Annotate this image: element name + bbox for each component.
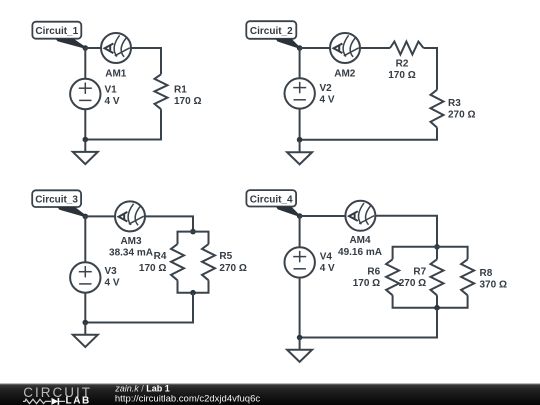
- svg-text:4 V: 4 V: [320, 95, 335, 106]
- node parallel bottom C3: [190, 290, 196, 296]
- wire node to V3 top: [84, 216, 86, 262]
- wire V4 bottom to bottom node: [299, 278, 301, 338]
- footer bar: [0, 383, 540, 405]
- svg-text:4 V: 4 V: [320, 263, 335, 274]
- svg-text:270 Ω: 270 Ω: [219, 263, 246, 274]
- wire R7 bottom lead: [436, 295, 438, 307]
- svg-text:V4: V4: [320, 252, 333, 263]
- svg-text:R7: R7: [413, 267, 426, 278]
- wire node to V4 top: [299, 216, 301, 247]
- node parallel top C4: [434, 244, 440, 250]
- resistor R7: [399, 259, 444, 295]
- svg-text:R4: R4: [154, 251, 167, 262]
- node parallel top C3: [190, 229, 196, 235]
- ammeter AM3: [109, 201, 153, 258]
- wire top bus C3: [178, 232, 209, 245]
- resistor R8: [461, 259, 507, 295]
- wire bottom bus C4: [393, 295, 468, 307]
- node bottom C3: [83, 320, 89, 326]
- node A top-left C1: [83, 45, 89, 51]
- svg-text:V3: V3: [105, 266, 118, 277]
- node parallel bottom C4: [434, 305, 440, 311]
- wire AM2 to R2: [360, 47, 390, 49]
- resistor R4: [139, 244, 184, 280]
- svg-text:Circuit_3: Circuit_3: [35, 195, 78, 206]
- svg-text:4 V: 4 V: [105, 96, 120, 107]
- svg-text:270 Ω: 270 Ω: [448, 110, 475, 121]
- wire R7 top lead: [436, 247, 438, 259]
- svg-text:170 Ω: 170 Ω: [174, 96, 201, 107]
- voltage source V3: [70, 262, 120, 292]
- svg-text:370 Ω: 370 Ω: [480, 280, 507, 291]
- voltage source V2: [285, 78, 335, 108]
- node top-left C4: [297, 213, 303, 219]
- svg-text:38.34 mA: 38.34 mA: [109, 248, 153, 259]
- wire node to AM2: [300, 47, 331, 49]
- svg-text:http://circuitlab.com/c2dxjd4v: http://circuitlab.com/c2dxjd4vfuq6c: [115, 393, 260, 404]
- node bottom C2: [297, 137, 303, 143]
- svg-text:LAB: LAB: [66, 396, 91, 405]
- net label Circuit_2: [246, 21, 300, 49]
- wire AM3 to parallel top node: [145, 216, 193, 231]
- wire V2 bottom to bottom node: [299, 109, 301, 140]
- svg-text:AM2: AM2: [334, 69, 356, 80]
- wire bottom bus C3: [178, 280, 209, 292]
- wire parallel bottom to bottom wire: [300, 308, 437, 338]
- svg-text:170 Ω: 170 Ω: [353, 278, 380, 289]
- svg-text:49.16 mA: 49.16 mA: [338, 247, 382, 258]
- svg-text:R8: R8: [480, 268, 493, 279]
- wire top bus C4: [393, 247, 468, 259]
- voltage source V1: [70, 79, 120, 109]
- svg-text:Circuit_2: Circuit_2: [250, 26, 293, 37]
- svg-text:270 Ω: 270 Ω: [399, 278, 426, 289]
- ammeter AM2: [330, 33, 360, 80]
- svg-text:R1: R1: [174, 85, 187, 96]
- CircuitLab logo: [23, 385, 92, 405]
- node bottom C1: [83, 137, 89, 143]
- ground C4: [287, 338, 312, 362]
- net label Circuit_4: [246, 190, 300, 217]
- node top-left C3: [83, 214, 89, 220]
- net label Circuit_3: [32, 190, 86, 217]
- wire parallel bottom to bottom wire: [85, 293, 193, 323]
- svg-text:Circuit_4: Circuit_4: [250, 194, 293, 205]
- ammeter AM1: [101, 33, 131, 80]
- wire node to V1 top: [84, 48, 86, 79]
- ground C3: [73, 323, 98, 348]
- wire R2 to R3 top: [424, 48, 438, 90]
- ground C2: [287, 140, 312, 165]
- svg-text:170 Ω: 170 Ω: [388, 70, 415, 81]
- resistor R3: [431, 90, 476, 128]
- wire node to V2 top: [299, 48, 301, 78]
- wire node to AM3: [85, 215, 115, 217]
- svg-text:R2: R2: [396, 59, 409, 70]
- svg-text:R5: R5: [219, 251, 232, 262]
- ground C1: [73, 140, 98, 165]
- svg-text:V1: V1: [105, 84, 118, 95]
- wire node to AM1: [85, 47, 101, 49]
- voltage source V4: [285, 247, 336, 277]
- svg-text:AM4: AM4: [349, 235, 371, 246]
- net label Circuit_1: [32, 22, 85, 49]
- ammeter AM4: [338, 201, 382, 258]
- wire R3 bottom to bottom node: [300, 128, 437, 140]
- resistor R5: [202, 244, 247, 280]
- svg-text:V2: V2: [320, 83, 333, 94]
- svg-text:R6: R6: [367, 267, 380, 278]
- wire V3 bottom to bottom node: [84, 293, 86, 323]
- wire R1 bottom to bottom node: [85, 109, 161, 139]
- node bottom C4: [297, 335, 303, 341]
- svg-text:AM3: AM3: [120, 236, 142, 247]
- svg-text:4 V: 4 V: [105, 277, 120, 288]
- resistor R6: [353, 259, 399, 295]
- resistor R2: [388, 42, 423, 82]
- resistor R1: [155, 74, 202, 109]
- wire V1 bottom to bottom node: [84, 109, 86, 139]
- svg-text:R3: R3: [448, 98, 461, 109]
- wire AM4 to parallel top node: [375, 216, 437, 247]
- wire node to AM4: [300, 215, 346, 217]
- svg-text:AM1: AM1: [105, 69, 127, 80]
- svg-text:Circuit_1: Circuit_1: [35, 26, 78, 37]
- svg-text:170 Ω: 170 Ω: [139, 263, 166, 274]
- svg-text:zain.k / Lab 1: zain.k / Lab 1: [114, 383, 170, 393]
- node top-left C2: [297, 45, 303, 51]
- wire AM1 to R1 top: [131, 48, 161, 74]
